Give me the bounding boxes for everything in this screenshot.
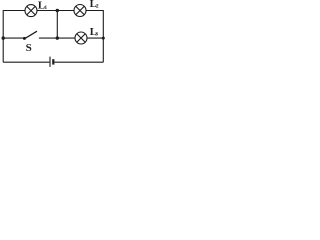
battery long plate xyxy=(49,57,51,67)
svg-text:3: 3 xyxy=(95,32,98,38)
battery short plate xyxy=(52,59,54,64)
wire middle-left to switch xyxy=(3,37,23,39)
lamp L1 xyxy=(25,5,37,17)
label L1 xyxy=(38,0,48,12)
wire bottom-left to battery xyxy=(3,61,49,63)
wire vertical link xyxy=(56,11,58,39)
wire L3 to right rail xyxy=(87,37,103,39)
wire left rail xyxy=(2,10,4,62)
node junction middle-right xyxy=(102,37,105,40)
lamp L3 xyxy=(75,32,87,44)
svg-text:2: 2 xyxy=(96,4,99,10)
label L3 xyxy=(90,26,99,38)
svg-text:1: 1 xyxy=(44,5,47,11)
wire switch to junction xyxy=(39,37,75,39)
node junction middle-left xyxy=(2,36,5,39)
wire battery to bottom-right xyxy=(54,61,103,63)
wire between L1 and junction xyxy=(37,10,74,12)
lamp L2 xyxy=(74,5,86,17)
node junction middle xyxy=(56,36,59,39)
node junction top xyxy=(56,9,59,12)
label L2 xyxy=(90,0,99,10)
wire right rail xyxy=(102,10,104,62)
svg-text:S: S xyxy=(26,42,32,54)
wire between L2 and right rail xyxy=(86,10,103,12)
switch S lever xyxy=(24,31,37,39)
switch S contact dot xyxy=(23,37,26,40)
wire top-left segment xyxy=(3,10,25,12)
